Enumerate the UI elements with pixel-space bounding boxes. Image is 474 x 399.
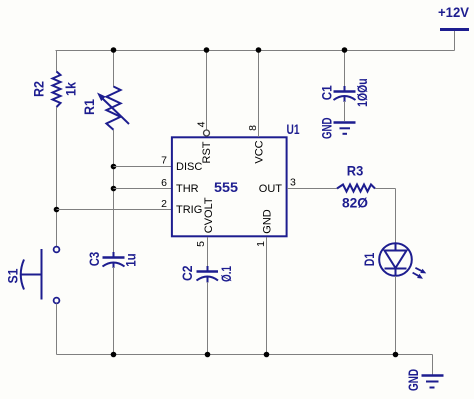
svg-text:7: 7 xyxy=(161,155,167,167)
wire C1 upper xyxy=(344,50,346,91)
wire pin 8 VCC xyxy=(258,50,260,137)
svg-text:5: 5 xyxy=(195,241,207,247)
svg-text:R2: R2 xyxy=(31,81,47,97)
label C1 xyxy=(318,85,334,100)
wire pin 4 RST xyxy=(206,50,208,130)
wire ground stub xyxy=(432,355,434,376)
wire left column upper xyxy=(56,50,58,72)
label C2 xyxy=(179,265,195,281)
pin name DISC xyxy=(176,161,202,173)
label GND C1 xyxy=(319,118,335,140)
label 820 xyxy=(342,195,368,211)
pin number 3 xyxy=(290,177,296,189)
pin number 5 xyxy=(195,241,207,247)
label R3 xyxy=(347,162,364,178)
wire THR xyxy=(114,188,172,190)
node bottom LED xyxy=(393,352,399,358)
label +12V xyxy=(438,4,470,20)
LED D1 xyxy=(379,243,426,279)
node bottom pin1 xyxy=(264,352,270,358)
label D1 xyxy=(361,253,377,267)
svg-text:GND: GND xyxy=(405,369,421,391)
wire +12V drop xyxy=(454,30,456,51)
wire OUT stub xyxy=(287,188,337,190)
svg-text:555: 555 xyxy=(214,179,238,195)
label 555 xyxy=(214,179,238,195)
node rail-pin4 xyxy=(204,47,210,53)
pin number 7 xyxy=(161,155,167,167)
wire pin 1 GND xyxy=(266,237,268,355)
resistor R3 xyxy=(337,185,375,192)
node DISC junction xyxy=(111,164,117,170)
label S1 xyxy=(5,268,21,283)
svg-text:VCC: VCC xyxy=(254,140,266,163)
svg-text:GND: GND xyxy=(262,209,274,234)
svg-text:82Ø: 82Ø xyxy=(342,195,368,211)
svg-text:GND: GND xyxy=(319,118,335,140)
wire DISC xyxy=(114,166,172,168)
node bottom C3 xyxy=(111,352,117,358)
wire R1 column middle xyxy=(113,130,115,257)
pin name TRIG xyxy=(176,204,202,216)
resistor R2 xyxy=(53,72,61,108)
node bottom C2 xyxy=(205,352,211,358)
svg-text:DISC: DISC xyxy=(176,161,202,173)
label GND bottom xyxy=(405,369,421,391)
node THR junction xyxy=(111,186,117,192)
wire left column lower xyxy=(56,304,58,355)
svg-text:6: 6 xyxy=(161,177,167,189)
wire C1 lower xyxy=(344,101,346,121)
pin name OUT xyxy=(259,183,283,195)
wire R3 to corner xyxy=(375,188,396,190)
wire R1 column upper xyxy=(113,50,115,87)
label C3 xyxy=(86,252,102,267)
label R2 xyxy=(31,81,47,97)
switch S1 xyxy=(21,247,60,304)
potentiometer R1 xyxy=(97,87,129,130)
wire top rail xyxy=(56,50,455,52)
svg-text:3: 3 xyxy=(290,177,296,189)
svg-text:CVOLT: CVOLT xyxy=(203,197,215,233)
wire pin 5 CVOLT xyxy=(207,237,209,269)
pin 4 inversion bubble xyxy=(204,130,210,136)
ground bottom right xyxy=(422,376,444,388)
wire left column middle xyxy=(56,107,58,247)
pin number 2 xyxy=(161,198,167,210)
svg-text:TRIG: TRIG xyxy=(176,204,202,216)
pin number 4 xyxy=(196,121,208,127)
svg-text:S1: S1 xyxy=(5,268,21,283)
pin name GND xyxy=(262,209,274,234)
svg-text:THR: THR xyxy=(176,183,199,195)
svg-text:4: 4 xyxy=(196,121,208,127)
label 0.1 xyxy=(218,266,234,282)
svg-text:1k: 1k xyxy=(63,82,79,96)
svg-text:C1: C1 xyxy=(318,85,334,100)
label 100u xyxy=(354,78,370,107)
svg-text:2: 2 xyxy=(161,198,167,210)
svg-text:+12V: +12V xyxy=(438,4,470,20)
pin name VCC xyxy=(254,140,266,163)
node rail-pin8 xyxy=(256,47,262,53)
pin name THR xyxy=(176,183,199,195)
capacitor C2 xyxy=(197,266,219,283)
node rail-C1 xyxy=(342,47,348,53)
svg-text:Ø.1: Ø.1 xyxy=(218,266,234,282)
capacitor C1 xyxy=(334,86,356,102)
svg-text:1ØØu: 1ØØu xyxy=(354,78,370,107)
wire bottom rail xyxy=(57,354,433,356)
svg-text:C3: C3 xyxy=(86,252,102,267)
node rail-R1 xyxy=(111,47,117,53)
svg-text:C2: C2 xyxy=(179,265,195,281)
pin number 1 xyxy=(255,241,267,247)
wire LED column upper xyxy=(395,189,397,244)
svg-text:1: 1 xyxy=(255,241,267,247)
svg-text:R1: R1 xyxy=(81,99,97,115)
pin number 6 xyxy=(161,177,167,189)
svg-text:R3: R3 xyxy=(347,162,364,178)
wire TRIG xyxy=(57,209,172,211)
label 1k xyxy=(63,82,79,96)
svg-text:D1: D1 xyxy=(361,253,377,267)
wire R1 column lower xyxy=(113,267,115,355)
pin number 8 xyxy=(247,125,259,131)
svg-text:OUT: OUT xyxy=(259,183,283,195)
svg-text:8: 8 xyxy=(247,125,259,131)
pin name CVOLT xyxy=(203,197,215,233)
wire LED column lower xyxy=(395,276,397,355)
op-amp U1 555 body xyxy=(172,137,287,236)
svg-text:RST: RST xyxy=(201,141,213,163)
wire C2 lower xyxy=(207,282,209,355)
ground C1 xyxy=(334,123,356,134)
svg-text:U1: U1 xyxy=(287,121,300,137)
capacitor C3 xyxy=(103,252,125,268)
label R1 xyxy=(81,99,97,115)
node TRIG junction xyxy=(54,207,60,213)
pin name RST xyxy=(201,141,213,163)
svg-text:1u: 1u xyxy=(123,253,139,267)
power +12V bar xyxy=(440,28,469,31)
label 1u xyxy=(123,253,139,267)
label U1 xyxy=(287,121,300,137)
